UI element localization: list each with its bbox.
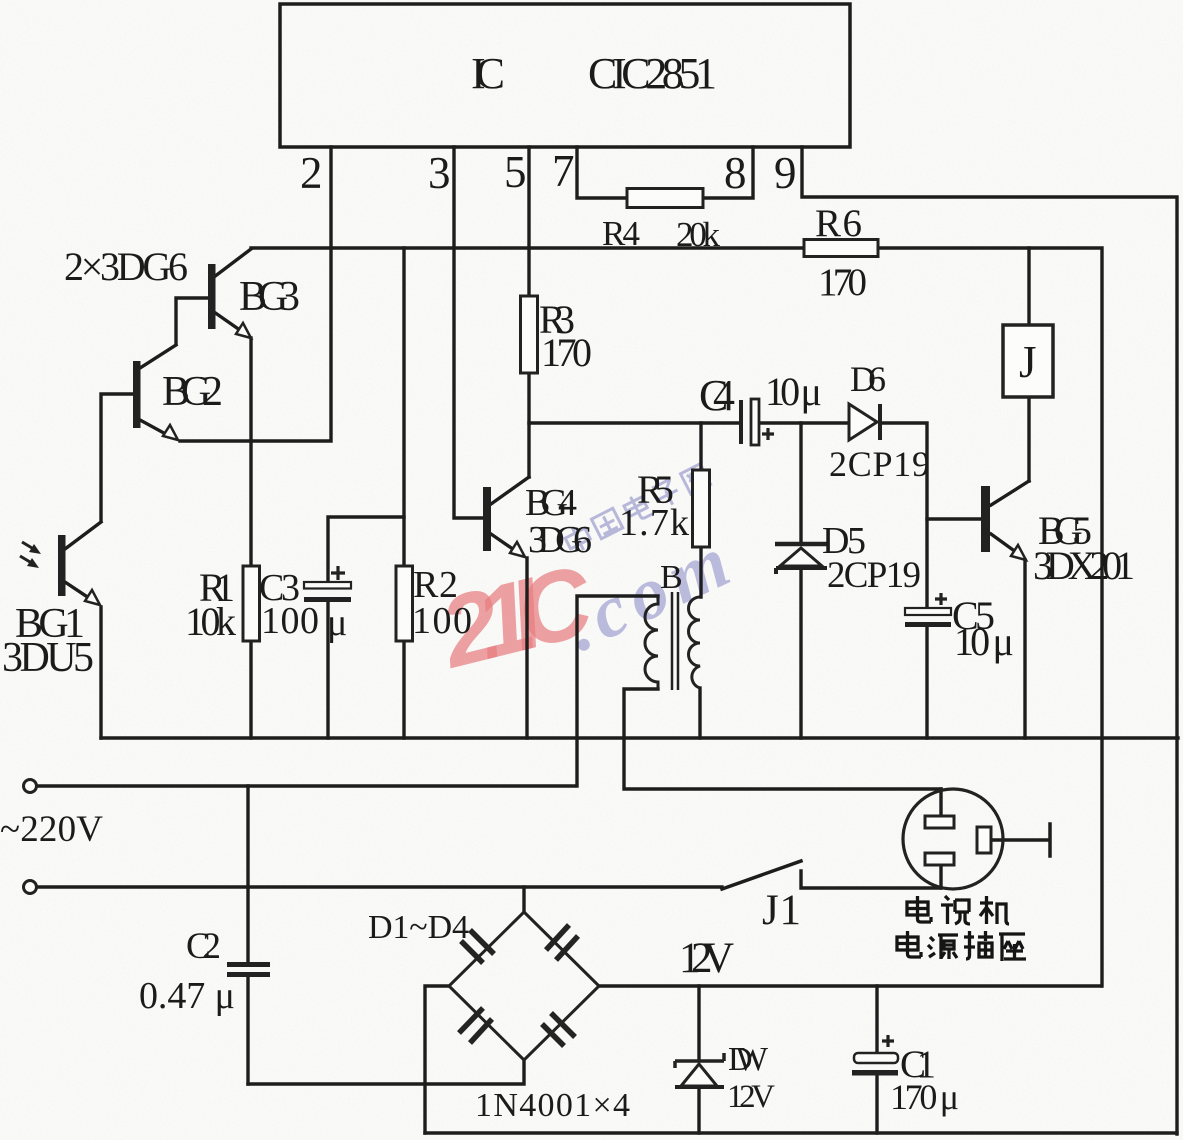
svg-text:12V: 12V bbox=[727, 1079, 775, 1115]
svg-text:~220V: ~220V bbox=[0, 809, 103, 850]
svg-text:7: 7 bbox=[552, 146, 575, 196]
svg-text:3DU5: 3DU5 bbox=[2, 635, 94, 681]
svg-text:10 μ: 10 μ bbox=[954, 619, 1014, 664]
svg-text:C4: C4 bbox=[699, 371, 735, 420]
svg-text:170: 170 bbox=[818, 261, 867, 304]
svg-text:3DG6: 3DG6 bbox=[528, 519, 592, 561]
svg-text:BG2: BG2 bbox=[162, 369, 223, 415]
svg-text:10 μ: 10 μ bbox=[765, 369, 822, 414]
svg-text:9: 9 bbox=[774, 148, 797, 198]
svg-text:3: 3 bbox=[428, 148, 451, 198]
svg-text:μ: μ bbox=[327, 602, 347, 644]
svg-text:12V: 12V bbox=[679, 935, 734, 982]
svg-text:20k: 20k bbox=[676, 215, 721, 254]
svg-text:R6: R6 bbox=[815, 202, 862, 245]
svg-text:8: 8 bbox=[724, 148, 747, 198]
svg-text:D1~D4: D1~D4 bbox=[368, 909, 469, 946]
svg-text:1.7k: 1.7k bbox=[619, 502, 689, 544]
svg-text:2CP19: 2CP19 bbox=[829, 444, 930, 484]
svg-text:BG4: BG4 bbox=[525, 482, 577, 524]
svg-text:R4: R4 bbox=[602, 214, 640, 253]
svg-text:IC: IC bbox=[471, 49, 505, 98]
svg-text:2: 2 bbox=[300, 148, 323, 198]
svg-text:BG3: BG3 bbox=[239, 274, 300, 320]
svg-text:C2: C2 bbox=[186, 926, 221, 967]
svg-text:3DX201: 3DX201 bbox=[1033, 543, 1135, 588]
svg-text:J1: J1 bbox=[762, 887, 801, 934]
svg-text:5: 5 bbox=[504, 147, 527, 197]
svg-text:B: B bbox=[660, 559, 683, 596]
svg-text:2CP19: 2CP19 bbox=[827, 555, 921, 596]
svg-text:CIC2851: CIC2851 bbox=[588, 49, 717, 98]
svg-text:1N4001×4: 1N4001×4 bbox=[475, 1087, 630, 1124]
svg-text:2×3DG6: 2×3DG6 bbox=[64, 244, 188, 289]
svg-text:100: 100 bbox=[412, 600, 472, 642]
svg-text:10k: 10k bbox=[185, 599, 236, 644]
svg-text:J: J bbox=[1019, 337, 1037, 387]
svg-text:DW: DW bbox=[728, 1041, 769, 1078]
svg-text:100: 100 bbox=[261, 600, 319, 642]
svg-text:D6: D6 bbox=[850, 359, 886, 399]
svg-text:170 μ: 170 μ bbox=[890, 1077, 959, 1117]
svg-text:170: 170 bbox=[541, 330, 592, 375]
svg-text:0.47 μ: 0.47 μ bbox=[139, 975, 235, 1017]
